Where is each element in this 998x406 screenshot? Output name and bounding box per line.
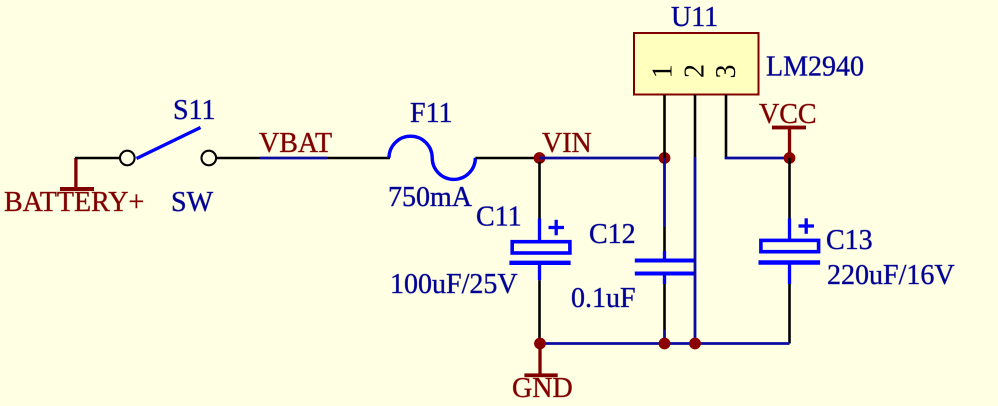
svg-text:U11: U11	[671, 2, 718, 33]
wire pin3 to VCC	[726, 157, 790, 158]
ground GND	[512, 344, 573, 405]
wire segment under VBAT (blue)	[260, 157, 327, 160]
wire battery to switch	[75, 157, 121, 160]
svg-text:C11: C11	[476, 202, 522, 233]
svg-text:750mA: 750mA	[388, 182, 473, 213]
svg-text:C13: C13	[826, 225, 873, 256]
power port VCC	[759, 99, 817, 158]
node VCC junction	[784, 152, 796, 164]
junction pin2 at rail	[689, 338, 701, 350]
wire C13 to rail	[788, 284, 791, 344]
wire pin2 down to rail	[694, 157, 697, 344]
wire switch to net label	[216, 157, 261, 160]
power port BATTERY+	[4, 158, 144, 218]
svg-text:0.1uF: 0.1uF	[571, 283, 636, 314]
svg-text:2: 2	[680, 64, 711, 78]
junction at pin1	[659, 152, 671, 164]
pin 2	[694, 95, 697, 157]
svg-text:100uF/25V: 100uF/25V	[390, 269, 518, 300]
wire fuse to VIN node	[475, 157, 539, 160]
node VIN junction	[534, 152, 546, 164]
capacitor C12	[571, 158, 696, 344]
svg-text:GND: GND	[512, 373, 573, 404]
svg-text:VIN: VIN	[542, 128, 592, 159]
regulator U11	[634, 2, 864, 95]
node GND junction	[534, 338, 546, 350]
svg-text:SW: SW	[171, 187, 214, 218]
switch S11	[120, 95, 216, 218]
junction C12 at rail	[659, 338, 671, 350]
capacitor C13	[759, 218, 955, 291]
svg-text:VCC: VCC	[759, 99, 817, 130]
svg-text:F11: F11	[410, 98, 453, 129]
pin 1	[663, 95, 666, 158]
pin 3	[725, 95, 728, 158]
svg-text:220uF/16V: 220uF/16V	[827, 260, 955, 291]
wire VIN to pin1	[540, 157, 665, 160]
ground rail	[540, 342, 790, 345]
svg-text:LM2940: LM2940	[766, 52, 864, 83]
svg-text:S11: S11	[173, 95, 216, 126]
svg-text:C12: C12	[589, 219, 636, 250]
fuse F11	[388, 98, 475, 213]
svg-text:VBAT: VBAT	[259, 128, 332, 159]
svg-text:3: 3	[711, 65, 742, 79]
wire netlabel to fuse	[327, 157, 390, 160]
capacitor C11	[390, 162, 571, 344]
svg-text:BATTERY+: BATTERY+	[4, 187, 144, 218]
wire VCC to C13	[788, 158, 791, 219]
svg-text:1: 1	[648, 65, 679, 79]
